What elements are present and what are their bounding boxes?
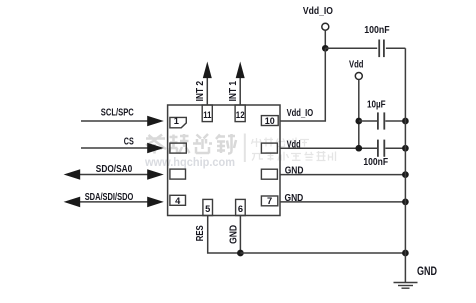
wire RES from pin 5 down and right [208,216,241,254]
wire Vdd_IO terminal down [324,31,326,49]
arrowhead CS into pin 2 [147,143,164,154]
ground symbol [394,283,418,289]
svg-text:CS: CS [124,136,134,147]
wire INT1 [239,78,241,106]
svg-text:100nF: 100nF [363,157,388,168]
capacitor C3 100nF plates [378,140,384,157]
junction bottom node [237,250,244,257]
wire C2 left [359,120,377,122]
wire SDA/SDI/SDO [78,201,150,203]
pin GND box (right, unnumbered) [261,169,277,179]
capacitor C1 100nF plates [379,40,384,58]
node C2 right junction [402,118,409,125]
svg-text:GND: GND [229,225,240,244]
svg-text:5: 5 [205,204,210,214]
wire INT2 [206,78,208,106]
svg-text:SDO/SA0: SDO/SA0 [96,164,133,175]
svg-text:RES: RES [195,225,206,241]
arrowhead SDA left [64,197,81,208]
wire pin 10 Vdd_IO [280,48,325,121]
watermark divider [244,134,246,163]
svg-text:www.hqchip.com: www.hqchip.com [144,155,235,169]
pin 11 box [202,105,212,122]
arrowhead SDO right [147,169,164,180]
pin 4 box [170,195,186,205]
svg-text:10: 10 [265,116,275,126]
watermark small CJK row 1 [252,138,310,148]
wire SCL/SPC [81,120,150,122]
pin 10 box [261,116,278,126]
node Vdd/C2 junction [355,118,362,125]
svg-text:Vdd_IO: Vdd_IO [303,6,333,17]
IC U1 body [168,105,280,216]
svg-text:INT 2: INT 2 [195,81,206,102]
arrowhead INT2 up [203,62,212,79]
node bottom bus junction [402,250,409,257]
svg-text:SCL/SPC: SCL/SPC [101,107,134,118]
wire GND pin 3rd right [280,174,405,176]
node Vdd_IO junction [322,45,329,52]
capacitor C2 10uF plates [378,112,384,129]
terminal Vdd_IO circle [322,23,329,30]
wire SDO/SA0 [78,174,150,176]
watermark small CJK row 2 [252,151,336,161]
svg-text:GND: GND [417,266,437,278]
node C3 right junction [402,145,409,152]
svg-text:INT 1: INT 1 [228,81,239,102]
svg-text:10µF: 10µF [367,99,386,110]
node GND7 wire junction [402,199,409,206]
pin 6 box [236,199,246,215]
wire Vdd terminal down [358,80,360,148]
wire C3 right to bus [385,147,405,149]
svg-text:7: 7 [267,196,272,206]
arrowhead SDA right [147,197,164,208]
wire C1 right plate to bus [386,47,406,49]
wire bottom to ground bus [240,252,405,254]
wire pin Vdd to C3 [280,147,377,149]
wire GND pin 6 down [239,216,241,254]
svg-text:4: 4 [175,196,181,206]
pin 7 box [261,196,277,206]
terminal Vdd circle [355,73,362,80]
pin 2 box [170,143,186,153]
node Vdd/C3 junction [355,145,362,152]
wire CS [81,147,150,149]
wire GND pin 7 [280,201,405,203]
svg-text:6: 6 [238,204,243,214]
svg-text:12: 12 [236,110,245,120]
svg-text:Vdd: Vdd [287,140,301,151]
svg-text:1: 1 [174,116,179,126]
wire junction to C1 left plate [325,47,377,49]
svg-text:GND: GND [285,166,304,177]
svg-text:Vdd: Vdd [349,59,364,70]
pin 5 box [203,199,213,215]
wire C2 right to bus [385,120,405,122]
pin 1 box (chamfered) [170,117,186,127]
pin 3 box [170,169,186,179]
watermark big CJK glyphs (hqchip) [146,134,236,154]
svg-text:GND: GND [285,193,304,204]
svg-text:Vdd_IO: Vdd_IO [287,108,314,119]
arrowhead INT1 up [236,62,245,79]
pin 12 box [235,105,245,122]
pin Vdd box (right, unnumbered) [261,143,277,153]
arrowhead SDO left [64,169,81,180]
node GND wire junction [402,171,409,178]
svg-text:100nF: 100nF [364,25,389,36]
wire ground bus vertical [404,48,406,282]
arrowhead SCL into pin 1 [147,116,164,127]
svg-text:11: 11 [203,110,211,120]
